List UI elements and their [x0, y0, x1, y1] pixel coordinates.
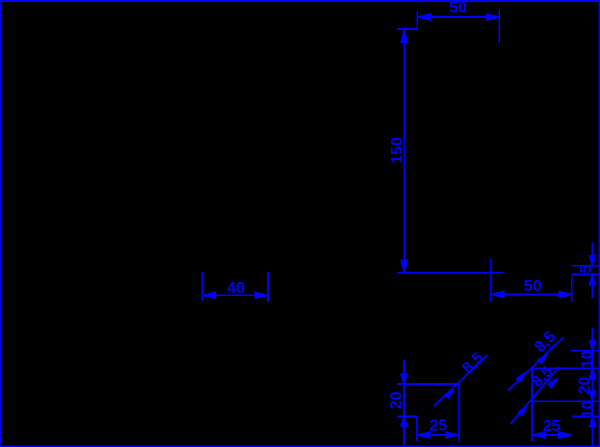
svg-text:10: 10 — [579, 350, 596, 368]
dimension: bottom width 50 — [491, 259, 572, 302]
detail: bottom-left step outline extensions — [397, 384, 459, 441]
svg-text:150: 150 — [389, 137, 406, 164]
border frame — [0, 0, 600, 2]
svg-text:20: 20 — [388, 391, 405, 409]
dimension chain 10 / 20 / 10 — [577, 328, 597, 446]
svg-text:50: 50 — [524, 278, 542, 295]
svg-text:50: 50 — [449, 0, 467, 17]
dimension: top width 50 — [417, 0, 499, 43]
dimension: height 150 — [389, 29, 417, 272]
svg-text:5: 5 — [578, 265, 595, 274]
radius leader 8,5 lower right — [511, 363, 560, 424]
dimension: step width 25 — [417, 418, 459, 438]
radius leader 8,5 left — [434, 349, 488, 406]
radius leader 8,5 upper right — [508, 328, 564, 390]
dimension: step height 20 — [388, 360, 407, 446]
svg-text:20: 20 — [577, 377, 594, 395]
svg-text:40: 40 — [227, 280, 245, 297]
svg-text:10: 10 — [580, 400, 597, 418]
dimension: thickness 5 — [572, 243, 600, 299]
right-side extension lines — [532, 351, 600, 441]
svg-text:25: 25 — [429, 418, 447, 435]
dimension: slot width 40 — [203, 272, 268, 302]
svg-text:25: 25 — [543, 418, 561, 435]
extension line: part bottom edge — [397, 272, 503, 274]
dimension: right width 25 — [532, 418, 572, 438]
